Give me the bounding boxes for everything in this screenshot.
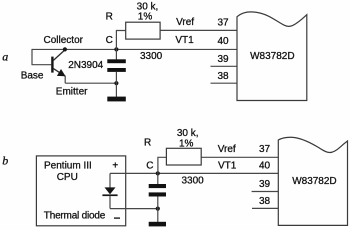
capacitor 3300 plate 1 (b) (149, 184, 166, 188)
svg-text:1%: 1% (179, 139, 194, 150)
svg-text:Collector: Collector (44, 35, 84, 46)
svg-text:W83782D: W83782D (250, 51, 294, 62)
svg-text:Pentium III: Pentium III (44, 160, 92, 171)
node emitter/cap junction dot (114, 81, 118, 85)
thermal diode D1 triangle (105, 187, 116, 194)
node collector junction dot (63, 47, 67, 51)
wire capacitor to emitter junction (115, 72, 117, 83)
svg-text:39: 39 (217, 54, 229, 65)
capacitor 3300 plate 2 (b) (149, 192, 166, 196)
wire junction to ground (b) (157, 209, 159, 222)
svg-text:a: a (2, 49, 8, 63)
svg-text:C: C (146, 161, 153, 172)
wire diode cathode to cap junction (110, 208, 158, 210)
svg-text:Vref: Vref (176, 17, 194, 28)
wire Emitter horizontal (65, 82, 116, 84)
thermal diode D1 anode lead (109, 173, 111, 187)
thermal diode D1 cathode bar (102, 194, 117, 196)
capacitor 3300 plate 1 (107, 59, 126, 63)
svg-text:CPU: CPU (57, 172, 78, 183)
svg-text:1%: 1% (138, 11, 153, 22)
svg-text:38: 38 (259, 196, 271, 207)
node C junction dot (b) (156, 171, 160, 175)
svg-text:3300: 3300 (140, 51, 163, 62)
ground bar (b) (149, 222, 166, 227)
resistor R body (126, 22, 160, 39)
pin 39 stub (211, 65, 238, 67)
resistor R (30k 1%) leads (116, 31, 125, 50)
transistor emitter arrowhead (57, 69, 66, 76)
svg-text:+: + (112, 160, 118, 171)
svg-text:37: 37 (259, 144, 271, 155)
wire emitter vertical (64, 76, 66, 84)
resistor R (b) leads (158, 157, 167, 173)
pin 39 stub (b) (252, 191, 278, 193)
thermal diode D1 cathode lead (109, 196, 111, 209)
wire base horizontal (32, 64, 52, 66)
CPU box (36, 156, 125, 226)
wire capacitor to bottom junction (b) (157, 197, 159, 209)
wire node C to capacitor (b) (157, 173, 159, 184)
svg-text:Vref: Vref (218, 144, 236, 155)
wire collector-to-base left vertical (31, 49, 33, 65)
svg-text:R: R (106, 12, 113, 23)
label minus (114, 217, 120, 219)
ground bar (107, 97, 126, 102)
svg-text:Base: Base (21, 70, 44, 81)
svg-text:2N3904: 2N3904 (68, 60, 103, 71)
wire Collector/VT1 horizontal (node C line to chip pin 40) (32, 48, 237, 50)
transistor emitter diagonal (53, 69, 65, 77)
wire junction to ground (115, 83, 117, 97)
svg-text:38: 38 (217, 71, 229, 82)
pin 38 stub (211, 82, 238, 84)
svg-text:40: 40 (217, 36, 229, 47)
svg-text:37: 37 (217, 17, 229, 28)
wire VT1 line (diode anode to chip pin 40) (110, 172, 278, 174)
IC U2 W83782D outline (wavy top, b) (278, 137, 347, 225)
IC U1 W83782D outline (wavy top) (237, 12, 307, 101)
svg-text:39: 39 (259, 179, 271, 190)
node bottom junction dot (b) (156, 207, 160, 211)
svg-text:b: b (2, 154, 8, 168)
transistor collector diagonal (53, 50, 65, 61)
capacitor 3300 plate 2 (107, 68, 126, 72)
svg-text:3300: 3300 (182, 175, 205, 186)
svg-text:W83782D: W83782D (292, 176, 336, 187)
svg-text:C: C (106, 35, 113, 46)
svg-text:Thermal diode: Thermal diode (44, 210, 106, 221)
svg-text:Emitter: Emitter (56, 87, 88, 98)
resistor R (b) body (166, 148, 201, 165)
transistor Q1 2N3904 base bar (51, 57, 53, 73)
svg-text:30 k,: 30 k, (177, 128, 199, 139)
svg-text:40: 40 (259, 161, 271, 172)
pin 38 stub (b) (252, 207, 278, 209)
svg-text:VT1: VT1 (175, 35, 194, 46)
svg-text:VT1: VT1 (218, 161, 237, 172)
wire node C to capacitor (115, 49, 117, 59)
node C junction dot (114, 47, 118, 51)
svg-text:R: R (144, 138, 151, 149)
